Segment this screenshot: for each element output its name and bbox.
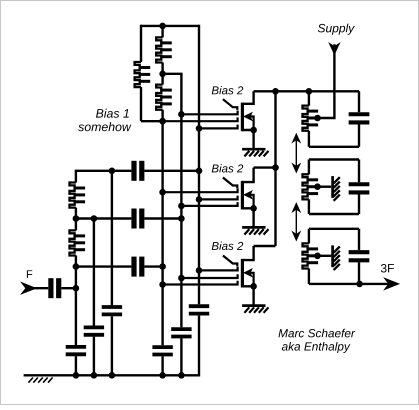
capacitor C-A (chain A to ground rail) <box>66 345 86 349</box>
wire R2-R3 link <box>161 63 163 74</box>
wire left branch lower <box>140 87 142 121</box>
label author line2 <box>282 342 351 353</box>
wire drain Q2 <box>242 168 254 183</box>
transistor Q2 channel <box>241 181 244 210</box>
wire row mid-stub M1 left part <box>141 120 163 122</box>
resistor R5 (chain A lower) <box>70 230 76 255</box>
transistor Q1 channel <box>241 103 244 132</box>
node gate stub 2 junction Q1 <box>159 118 166 125</box>
node gate stub 1 junction Q3 <box>196 267 203 274</box>
wire tank3 left upper <box>308 229 310 244</box>
wire tank1 right lower <box>358 125 360 147</box>
capacitor C-G (bus G to ground rail) <box>189 304 209 308</box>
wire F input lead <box>26 287 48 289</box>
wire tank2 top <box>309 158 359 160</box>
capacitor C3 (tank 3) <box>349 250 370 254</box>
node chain A input junction <box>73 285 80 292</box>
wire row F right segment <box>144 265 162 267</box>
wire F input to chain A <box>61 287 76 289</box>
wire top rail <box>141 25 199 27</box>
arrow body Q3 <box>245 269 252 276</box>
wire bus F bottom lead <box>180 338 182 375</box>
wire drain row M2 <box>254 166 276 168</box>
wire gate stub 1 Q3 <box>199 267 238 271</box>
capacitor C-rowA (coupling) <box>131 161 136 181</box>
node source junction Q1 <box>250 127 257 134</box>
wire tank3 left lower <box>308 269 310 284</box>
wire tank2 bottom <box>309 213 359 215</box>
wire tank2 left lower <box>308 199 310 214</box>
wire tank2 left upper <box>308 160 310 175</box>
node gate stub 3 junction Q1 <box>196 125 203 132</box>
wire bus G bottom lead <box>198 316 200 377</box>
resistor R2 (Bias 1 upper) <box>156 37 162 62</box>
arrow body Q1 <box>245 113 252 120</box>
wire row A left segment <box>76 171 131 172</box>
node tank1 tap <box>314 115 321 122</box>
node output junction <box>356 281 363 288</box>
node top-center junction <box>159 23 166 30</box>
wire tank2 tap lead <box>318 185 332 187</box>
label Bias 1 somehow line2 <box>78 122 131 131</box>
wire tank3 right lower <box>358 262 360 284</box>
wire gate stub 2 Q3 <box>181 274 237 278</box>
wire tank2 right upper <box>358 160 360 183</box>
ground wall tank3 <box>331 245 334 267</box>
wire gate stub 1 Q1 <box>181 111 237 115</box>
resistor R4 (chain A upper) <box>70 183 76 208</box>
wire tank3 tap lead <box>318 255 332 257</box>
wire chain A bottom lead <box>75 356 77 375</box>
wire source Q1 <box>242 130 254 149</box>
capacitor C1 (tank 1) <box>349 112 370 116</box>
capacitor C-F (bus F to ground rail) <box>171 327 191 331</box>
wire right branch down <box>198 25 200 129</box>
node row E bus F junction <box>178 215 185 222</box>
wire chain A top <box>75 171 77 183</box>
wire output lead <box>360 283 390 285</box>
ground rail hatching <box>28 378 33 383</box>
capacitor C-C (chain C to ground rail) <box>102 305 122 309</box>
gate lead Q3 <box>223 256 237 267</box>
node tank2 tap <box>314 183 321 190</box>
arrow coupling 1 (tank1-tank2) <box>295 138 297 168</box>
arrow coupling 2 (tank2-tank3) <box>295 208 297 237</box>
wire chain C bottom lead <box>111 316 113 375</box>
node gate stub 3 junction Q2 <box>178 203 185 210</box>
node row F bus E junction <box>159 263 166 270</box>
node gate stub 2 junction Q3 <box>178 275 185 282</box>
wire tank1 left upper <box>308 91 310 105</box>
inductor L3 (tank 3) <box>303 243 309 268</box>
wire row E left segment <box>76 217 131 219</box>
wire row E right segment <box>144 217 181 219</box>
node source junction Q2 <box>250 205 257 212</box>
wire R3 leads <box>161 74 163 85</box>
wire R2 top lead <box>161 26 163 38</box>
node rail junction C <box>109 372 116 379</box>
wire tank1 right upper <box>358 91 360 112</box>
wire supply lead <box>318 44 335 118</box>
wire source Q3 <box>242 286 254 305</box>
node chain C top junction <box>109 168 116 175</box>
wire row F left segment <box>76 265 131 267</box>
arrow body Q2 <box>245 191 252 198</box>
resistor R1 (Bias 1 left) <box>135 62 141 87</box>
node bus E mid-stub junction <box>159 118 166 125</box>
wire mid junction to bus F <box>163 74 182 115</box>
wire body arrow shaft Q2 <box>248 195 253 209</box>
wire drain Q3 <box>242 246 254 260</box>
capacitor C-rowE (coupling) <box>131 209 136 229</box>
inductor L2 (tank 2) <box>303 174 309 199</box>
node chain B top junction <box>91 215 98 222</box>
wire tank3 bottom <box>309 283 359 285</box>
node chain A row F junction <box>73 263 80 270</box>
wire drain Q1 <box>242 91 254 104</box>
node drain bus M2 junction <box>272 164 279 171</box>
wire body arrow shaft Q3 <box>248 273 253 287</box>
wire source Q2 <box>242 208 254 227</box>
label author line1 <box>279 329 356 338</box>
capacitor C2 (tank 2) <box>349 182 370 186</box>
wire drain top rail <box>254 90 359 92</box>
node rail junction F <box>178 372 185 379</box>
capacitor C-rowF (coupling) <box>131 257 136 277</box>
label Bias 1 somehow line1 <box>96 109 129 118</box>
wire bus E (main vertical) <box>161 121 163 345</box>
wire chain A mid2 <box>75 256 77 289</box>
node Bias1 mid junction <box>159 71 166 78</box>
ground wall tank2 <box>331 176 334 198</box>
wire chain A lower <box>75 288 77 345</box>
wire tank1 bottom <box>309 146 359 148</box>
wire tank3 right upper <box>358 229 360 250</box>
arrow 3F output <box>386 279 398 289</box>
capacitor C-in (input coupling) <box>48 278 53 298</box>
arrow Supply (down) <box>330 44 339 53</box>
wire ground rail <box>24 374 199 376</box>
label Bias 2 (Q2) <box>212 164 243 172</box>
node gate stub 2 junction Q2 <box>196 196 203 203</box>
label Bias 2 (Q3) <box>212 242 243 250</box>
wire gate stub 3 Q1 <box>199 125 238 129</box>
ground Q2 <box>242 226 265 229</box>
label F input <box>27 270 32 278</box>
node rail junction B <box>91 372 98 379</box>
gate lead Q2 <box>223 178 237 189</box>
gate lead Q1 <box>223 99 237 110</box>
arrow F input <box>23 283 35 293</box>
wire gate stub 2 Q1 <box>163 117 238 121</box>
node rail junction E <box>159 372 166 379</box>
node gate stub 3 junction Q3 <box>159 281 166 288</box>
label Supply <box>318 24 355 35</box>
wire chain B upper <box>93 219 95 326</box>
wire drain bus vertical <box>274 91 276 246</box>
node chain A row E junction <box>73 215 80 222</box>
ground Q1 <box>242 148 265 151</box>
wire gate stub 1 Q2 <box>163 188 238 192</box>
inductor L1 (tank 1) <box>303 106 309 131</box>
node rail junction A <box>73 372 80 379</box>
node gate stub 1 junction Q2 <box>159 189 166 196</box>
wire tank2 right lower <box>358 195 360 215</box>
resistor R3 (Bias 1 lower) <box>156 85 162 110</box>
wire tank3 top <box>309 228 359 230</box>
wire row A right segment <box>144 170 199 172</box>
node source junction Q3 <box>250 283 257 290</box>
capacitor C-E (bus E to ground rail) <box>152 345 172 349</box>
wire bus G middle <box>198 128 200 304</box>
node tank3 tap <box>314 253 321 260</box>
wire chain B bottom lead <box>93 337 95 376</box>
node row A bus G junction <box>196 168 203 175</box>
wire gate stub 2 Q2 <box>199 196 238 200</box>
ground Q3 <box>242 304 265 307</box>
wire gate stub 3 Q2 <box>181 202 237 206</box>
node tank1 top-left junction <box>306 88 313 95</box>
wire chain A mid1 <box>75 208 77 231</box>
wire drain row M3 <box>254 245 276 247</box>
node gate stub 1 junction Q1 <box>178 111 185 118</box>
wire bus F middle <box>180 114 182 327</box>
wire tank1 left lower <box>308 131 310 147</box>
label Bias 2 (Q1) <box>212 86 243 94</box>
label 3F output <box>381 264 394 272</box>
transistor Q3 channel <box>241 259 244 288</box>
wire chain C upper <box>111 171 113 305</box>
wire bus E bottom lead <box>161 356 163 375</box>
wire body arrow shaft Q1 <box>248 117 253 131</box>
wire left branch upper <box>140 25 142 62</box>
capacitor C-B (chain B to ground rail) <box>84 325 104 329</box>
wire gate stub 3 Q3 <box>163 281 238 285</box>
node drain bus top junction <box>272 88 279 95</box>
